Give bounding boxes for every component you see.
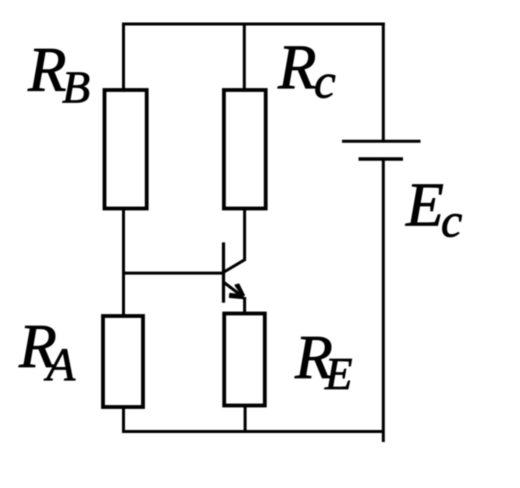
svg-text:c: c bbox=[314, 53, 336, 108]
svg-text:R: R bbox=[277, 33, 316, 103]
wire collector vertical from R_C bbox=[243, 209, 246, 260]
wire right vertical to battery bbox=[382, 23, 385, 142]
wire R_B bottom to R_A top bbox=[122, 209, 125, 317]
transistor Q1 emitter arrowhead bbox=[230, 284, 245, 298]
resistor R_C bbox=[224, 90, 266, 209]
wire battery bottom vertical bbox=[382, 159, 385, 442]
label R_C bbox=[277, 33, 336, 109]
wire R_A bottom drop bbox=[122, 407, 125, 433]
transistor Q1 collector slant bbox=[224, 259, 246, 272]
label E_C bbox=[405, 172, 462, 248]
wire R_E bottom drop bbox=[244, 406, 247, 434]
resistor R_B bbox=[105, 90, 147, 209]
svg-text:c: c bbox=[441, 195, 462, 248]
label R_A bbox=[18, 313, 76, 391]
resistor R_E bbox=[224, 314, 265, 406]
battery E_C long plate bbox=[342, 140, 421, 143]
svg-text:E: E bbox=[405, 172, 444, 240]
svg-text:R: R bbox=[27, 35, 66, 105]
wire top horizontal (Vcc rail) bbox=[122, 23, 385, 26]
wire base horizontal bbox=[122, 272, 224, 275]
battery E_C short plate bbox=[359, 157, 404, 160]
svg-text:A: A bbox=[44, 339, 76, 391]
label R_E bbox=[294, 324, 353, 399]
transistor Q1 emitter slant bbox=[224, 282, 243, 296]
wire R_B top drop bbox=[122, 23, 125, 91]
label R_B bbox=[27, 35, 90, 113]
svg-text:E: E bbox=[324, 349, 353, 399]
resistor R_A bbox=[103, 316, 143, 407]
wire bottom horizontal (ground rail) bbox=[122, 430, 383, 433]
wire R_C top drop bbox=[243, 23, 246, 91]
svg-text:B: B bbox=[62, 62, 90, 113]
transistor Q1 base bar bbox=[222, 242, 225, 302]
wire emitter vertical to R_E bbox=[243, 297, 246, 315]
